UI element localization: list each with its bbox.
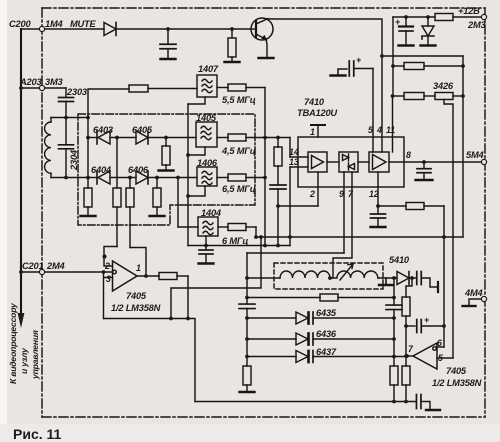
svg-text:6406: 6406 <box>128 165 149 175</box>
wire tank top y117 <box>51 117 88 119</box>
junction 463-96 <box>461 94 465 98</box>
wire 1407 bottom tap <box>188 97 205 104</box>
wire stage2-pin8 link <box>389 161 404 163</box>
svg-text:1/2 LM358N: 1/2 LM358N <box>111 303 161 313</box>
junction blob <box>102 254 106 258</box>
svg-text:4М4: 4М4 <box>464 288 484 298</box>
junction 88-177 <box>86 176 90 180</box>
junction rail cap <box>404 15 408 19</box>
svg-text:13: 13 <box>289 157 299 167</box>
wire y56 feed line <box>382 55 463 57</box>
capacitor C pin12 <box>371 206 386 227</box>
junction 424-162 <box>422 160 426 164</box>
resistor R pin2 <box>274 147 282 166</box>
wire pin5 vertical <box>372 69 374 153</box>
wire x444 column <box>443 206 445 347</box>
svg-text:6: 6 <box>437 338 442 348</box>
svg-text:8: 8 <box>406 150 411 160</box>
svg-text:TBA120U: TBA120U <box>297 108 337 118</box>
wire bus x188 filter returns <box>187 104 189 246</box>
wire pin11 supply <box>392 96 394 152</box>
wire collector to pin4 column <box>268 19 382 152</box>
svg-text:С200: С200 <box>9 19 31 29</box>
resistor R x394 <box>390 366 398 402</box>
node 4M4 terminal <box>463 296 487 306</box>
chain-dash frame right border <box>484 8 486 417</box>
wire AFC long line y237 <box>256 236 463 238</box>
pin 1 stub <box>311 125 325 137</box>
junction 178-177 <box>176 176 180 180</box>
wire resistor row y297 <box>247 297 320 299</box>
svg-text:7410: 7410 <box>304 97 325 107</box>
wire 6MHz drop to AFC line <box>255 227 257 237</box>
wire pin2 column x278 <box>277 138 279 246</box>
svg-text:4,5 МГц: 4,5 МГц <box>221 146 256 156</box>
svg-text:1404: 1404 <box>201 208 222 218</box>
wire bottom rail <box>195 401 415 403</box>
wire rail down x393 <box>392 17 394 96</box>
junction 88-137 <box>86 136 90 140</box>
junction 444-326 <box>442 324 446 328</box>
junction 130-177 <box>128 176 132 180</box>
capacitor C+ row y326 <box>406 320 444 333</box>
diode 6405 <box>136 131 196 144</box>
wire matrix jog to opamp pin2 <box>104 247 117 267</box>
svg-text:2303: 2303 <box>66 87 88 97</box>
arrowhead bus <box>18 313 25 328</box>
svg-text:2: 2 <box>309 189 315 199</box>
resistor R2 y66 <box>393 63 463 70</box>
junction 117-137 <box>115 136 119 140</box>
resistor R y297 <box>320 294 394 301</box>
wire stage1-demod link <box>327 161 339 163</box>
junction base resistor <box>230 27 234 31</box>
node 5M4 terminal <box>481 159 486 164</box>
svg-text:+12В: +12В <box>458 6 480 16</box>
ground coil <box>379 278 393 285</box>
junction bus-c201 <box>19 270 23 274</box>
diode 6435 with series cap <box>247 312 394 324</box>
filter Z 1407 box <box>197 75 217 97</box>
diode 5410 <box>397 272 409 285</box>
wire C201 input row <box>21 271 112 273</box>
inductor L tank <box>45 118 51 178</box>
wire +12V rail <box>393 16 481 18</box>
junction 66-177 <box>64 176 68 180</box>
wire pin12 lead <box>377 172 379 206</box>
svg-text:1: 1 <box>310 127 315 137</box>
node C200 terminal <box>39 26 44 31</box>
filter Z 1406 box <box>197 167 217 186</box>
junction 265-245 <box>263 244 267 248</box>
wire A203 input row <box>21 87 66 89</box>
chain-dash frame left border / bus A <box>41 8 43 417</box>
wire pin13 stub <box>290 166 308 168</box>
resistor R x406 lower <box>402 366 410 402</box>
bus to video processor <box>20 29 22 314</box>
potentiometer 3426 <box>435 93 463 359</box>
wire x265 column <box>264 88 266 246</box>
wire demod-stage2 link <box>358 161 369 163</box>
wire 1404 feed from row2 <box>177 178 179 228</box>
svg-text:12: 12 <box>369 189 379 199</box>
svg-text:14: 14 <box>289 147 299 157</box>
junction bus-a203 <box>19 86 23 90</box>
wire 1404 input <box>178 226 198 228</box>
svg-text:7405: 7405 <box>446 366 467 376</box>
junction 412-278 <box>410 276 414 280</box>
wire pin6 feedback <box>437 346 444 348</box>
op-amp U1 IC body TBA120U <box>298 137 404 187</box>
junction rail zener <box>426 15 430 19</box>
wire pin9 row <box>247 252 344 254</box>
junction 406-401 <box>404 400 408 404</box>
chain-dash frame top border <box>42 7 485 9</box>
resistor R 1404 out <box>218 224 256 231</box>
demodulator stage box <box>339 152 358 172</box>
svg-text:Рис. 11: Рис. 11 <box>13 426 62 442</box>
capacitor C x394 <box>386 305 402 310</box>
svg-text:6403: 6403 <box>93 125 114 135</box>
junction 378-206 <box>376 204 380 208</box>
capacitor mute C <box>160 29 176 59</box>
junction mute cap <box>166 27 170 31</box>
junction 206-245 <box>204 244 208 248</box>
capacitor 2304 <box>59 118 74 178</box>
resistor R 1405 out <box>217 134 290 141</box>
svg-text:1: 1 <box>136 263 141 273</box>
wire pin2 lead <box>317 172 319 206</box>
junction 261-237 <box>259 235 263 239</box>
resistor R 1407 out <box>217 84 265 91</box>
svg-text:+: + <box>424 315 429 325</box>
amplifier stage 2 box <box>369 152 389 172</box>
svg-text:1/2 LM358N: 1/2 LM358N <box>432 378 482 388</box>
inductor L1 coil b <box>330 271 378 278</box>
svg-text:5: 5 <box>368 125 373 135</box>
svg-text:С201: С201 <box>22 261 43 271</box>
diode VD mute <box>104 23 116 36</box>
junction 394-278 <box>392 276 396 280</box>
wire opamp2 out <box>407 355 413 357</box>
transistor Q1 <box>251 18 274 58</box>
resistor R row1 mid <box>113 138 121 247</box>
wire AFC return y245 <box>188 245 290 247</box>
svg-text:9: 9 <box>339 189 344 199</box>
wire x247 column bottom <box>246 309 248 367</box>
wire right column x463 <box>462 56 464 237</box>
diode 6403 <box>88 131 136 144</box>
svg-text:11: 11 <box>386 125 395 135</box>
wire pin5 input <box>437 357 453 359</box>
svg-text:MUTE: MUTE <box>70 19 97 29</box>
wire x394 column top <box>393 278 395 305</box>
junction 103-272 <box>102 270 106 274</box>
junction collector-56 <box>380 54 384 58</box>
op-amp U3 7405b triangle <box>413 343 437 369</box>
resistor R pin12 <box>378 203 444 210</box>
chain-dash frame bottom border <box>42 416 485 418</box>
junction 392-96 <box>391 94 395 98</box>
wire pin14 drop <box>289 138 291 158</box>
svg-text:6 МГц: 6 МГц <box>222 236 248 246</box>
junction 393-66 <box>391 64 395 68</box>
wire 1407 input row <box>148 88 197 90</box>
capacitor 2303 <box>59 88 74 118</box>
junction 188-196 <box>186 194 190 198</box>
capacitor electrolytic C+ <box>399 17 414 46</box>
junction 157-177 <box>155 176 159 180</box>
svg-text:6435: 6435 <box>316 308 337 318</box>
svg-text:А203: А203 <box>19 77 42 87</box>
wire opamp1 out drop <box>187 276 189 319</box>
wire pin9 lead <box>343 172 345 253</box>
capacitor C pin8 <box>416 162 433 180</box>
node A203 terminal <box>39 85 44 90</box>
svg-text:6405: 6405 <box>132 125 153 135</box>
svg-text:5410: 5410 <box>389 255 410 265</box>
svg-text:6404: 6404 <box>91 165 112 175</box>
junction 247-278 <box>245 276 249 280</box>
svg-text:4: 4 <box>376 125 382 135</box>
svg-text:2: 2 <box>104 261 110 271</box>
junction 265-137 <box>263 136 267 140</box>
svg-text:5,5 МГц: 5,5 МГц <box>222 95 256 105</box>
svg-text:3М3: 3М3 <box>45 77 64 87</box>
svg-text:2304: 2304 <box>69 149 79 171</box>
junction 88-117 <box>86 116 90 120</box>
resistor R row2 load <box>150 178 165 217</box>
resistor R row2 mid <box>126 178 134 248</box>
wire 1405 bottom tap <box>188 147 205 155</box>
junction 463-66 <box>461 64 465 68</box>
diode 6406 <box>136 171 197 184</box>
junction 394-297 <box>392 296 396 300</box>
svg-text:+: + <box>395 17 400 27</box>
junction 290-237 <box>288 235 292 239</box>
junction 66-117 <box>64 116 68 120</box>
capacitor C 1404 return <box>199 246 214 264</box>
resistor R 1407 in <box>129 85 148 92</box>
resistor R +12V feed <box>435 14 453 21</box>
wire tank bottom y177 <box>51 177 88 179</box>
svg-text:2М3: 2М3 <box>467 20 487 30</box>
junction 247-297 <box>245 296 249 300</box>
wire C200 MUTE row <box>21 28 251 30</box>
diode 6436 with series cap <box>247 333 394 345</box>
resistor R 1406 out <box>217 174 265 181</box>
junction 256-237 <box>254 235 258 239</box>
junction 407-356 <box>405 354 409 358</box>
junction 406-356 <box>404 354 408 358</box>
wire coil out <box>378 277 397 279</box>
wire x406 top bend <box>406 278 412 297</box>
wire 1404 bottom tap <box>205 236 207 246</box>
junction 406-326 <box>404 324 408 328</box>
wire x394 column bottom <box>393 310 395 367</box>
junction 278-245 <box>276 244 280 248</box>
svg-text:3: 3 <box>106 274 111 284</box>
junction 394-401 <box>392 400 396 404</box>
junction 265-177 <box>263 176 267 180</box>
capacitor C bottom <box>416 395 440 411</box>
wire x247 column top <box>246 253 248 304</box>
svg-text:6,5 МГц: 6,5 МГц <box>222 184 256 194</box>
wire coil feed <box>247 277 280 279</box>
capacitor C pin5 electrolytic <box>331 61 374 76</box>
wire pin2 row <box>278 205 318 207</box>
junction 166-137 <box>164 136 168 140</box>
dashed shield box <box>274 263 383 289</box>
wire pin3 feedback left <box>104 272 113 319</box>
diode 6437 with series cap <box>247 351 407 363</box>
svg-text:2М4: 2М4 <box>46 261 66 271</box>
junction 444-237 <box>442 235 446 239</box>
junction 146-276 <box>144 274 148 278</box>
filter Z 1405 box <box>196 122 217 147</box>
capacitor C pin2 <box>270 185 286 189</box>
junction 394-318 <box>392 316 396 320</box>
junction 278-137 <box>276 136 280 140</box>
junction 394-356 <box>392 355 396 359</box>
resistor R x247 <box>240 366 255 392</box>
svg-text:1407: 1407 <box>198 64 219 74</box>
svg-text:5М4: 5М4 <box>466 150 485 160</box>
junction 247-356 <box>245 355 249 359</box>
svg-text:управления: управления <box>30 330 40 380</box>
svg-text:1405: 1405 <box>196 113 217 123</box>
dashed matrix box <box>78 114 255 225</box>
resistor R matrix left <box>81 188 96 216</box>
svg-text:6436: 6436 <box>316 329 337 339</box>
wire 1406 bottom tap <box>188 186 205 196</box>
svg-text:1М4: 1М4 <box>45 19 64 29</box>
svg-text:+: + <box>356 55 361 65</box>
junction 278-206 <box>276 204 280 208</box>
wire opamp1 bottom <box>104 319 196 402</box>
junction 247-339 <box>245 337 249 341</box>
wire S path to opamp1 <box>171 237 261 319</box>
junction coil center <box>328 276 332 280</box>
svg-text:и узлу: и узлу <box>19 347 29 374</box>
op-amp U2 7405a triangle <box>113 261 138 291</box>
junction 394-339 <box>392 337 396 341</box>
inductor L1 coil a <box>280 271 330 278</box>
svg-text:1406: 1406 <box>197 158 218 168</box>
wire pin14 stub <box>290 156 308 158</box>
trimmer arrow <box>340 264 353 280</box>
node +12V 2M3 terminal <box>481 14 486 19</box>
capacitor C 5410 <box>409 272 438 293</box>
resistor R3 y96 <box>392 93 435 100</box>
svg-text:7405: 7405 <box>126 291 147 301</box>
junction 171-318 <box>169 317 173 321</box>
junction 188-155 <box>186 153 190 157</box>
junction 247-318 <box>245 316 249 320</box>
resistor R x406 upper <box>402 297 410 366</box>
node C201 terminal <box>39 269 44 274</box>
resistor R row1 load <box>159 138 174 171</box>
zener diode VD stab <box>421 17 436 46</box>
svg-text:5: 5 <box>438 353 443 363</box>
filter Z 1404 box <box>198 217 218 236</box>
svg-text:6437: 6437 <box>316 347 337 357</box>
amplifier stage 1 box <box>308 152 327 172</box>
capacitor C x247 <box>239 304 255 309</box>
junction 188-318 <box>186 317 190 321</box>
svg-text:К видеопроцессору: К видеопроцессору <box>8 302 18 384</box>
wire matrix column x87 <box>88 89 129 188</box>
diode 6404 <box>88 171 136 184</box>
wire pin7 lead <box>333 172 352 277</box>
wire pin13 column x290 <box>289 167 291 246</box>
wire matrix jog to opamp out <box>130 248 146 277</box>
wire pin8 output <box>404 161 481 163</box>
resistor base R <box>225 29 240 62</box>
resistor R opamp1 out <box>137 273 188 280</box>
svg-text:3426: 3426 <box>433 81 454 91</box>
